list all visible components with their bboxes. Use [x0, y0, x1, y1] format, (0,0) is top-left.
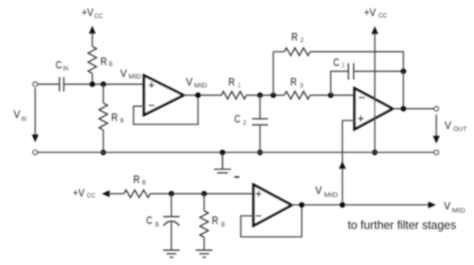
U2 - sign	[359, 97, 365, 99]
U3 feedback wire	[241, 205, 302, 237]
label VMID (U1 + input)	[120, 68, 141, 81]
wire R2 to output node	[310, 52, 403, 72]
label VOUT	[445, 120, 467, 133]
+VCC up arrowhead top-left	[89, 26, 96, 34]
capacitor C2	[252, 95, 268, 152]
label C2	[234, 114, 246, 127]
label RB (bias to ground)	[212, 215, 225, 229]
svg-text:R: R	[290, 77, 297, 89]
U1 + sign	[149, 82, 155, 88]
svg-text:2: 2	[243, 120, 247, 127]
wire +VCC supply line (crosses through U2)	[374, 33, 376, 152]
svg-text:+V: +V	[364, 7, 376, 19]
wire U2 + input from VMID	[342, 121, 355, 205]
ground (main rail)	[214, 152, 231, 173]
capacitor C1 branch left wire	[331, 71, 349, 95]
ground (under RB5)	[196, 250, 213, 257]
junction R2/C1	[401, 69, 407, 75]
U3 + sign	[256, 191, 262, 197]
wire RB1 to top rail	[91, 73, 93, 84]
wire riser to R2	[273, 51, 284, 53]
junction R2 node	[271, 92, 277, 98]
label VIN	[14, 109, 27, 123]
label R3	[290, 77, 303, 90]
minus polarity mark	[234, 176, 239, 178]
capacitor C1	[348, 63, 353, 79]
svg-text:C: C	[333, 57, 339, 69]
VMID right arrowhead	[428, 202, 436, 209]
svg-text:C: C	[146, 215, 152, 227]
+VCC up arrowhead top-right	[371, 26, 378, 34]
svg-text:R: R	[133, 174, 140, 186]
node +VCC label bottom-left	[73, 187, 96, 199]
capacitor CB (polarized)	[163, 194, 179, 250]
U3 output wire (VMID line)	[292, 204, 429, 206]
svg-text:V: V	[186, 77, 193, 89]
wire R1 to R3	[246, 94, 284, 96]
svg-text:R: R	[100, 56, 107, 68]
node +VCC label top-left	[82, 7, 103, 20]
input terminal (top)	[33, 82, 37, 86]
ground (under CB)	[163, 250, 180, 257]
svg-text:2: 2	[300, 37, 304, 44]
op-amp U3 (VMID buffer)	[254, 185, 292, 226]
wire RB5 riser	[203, 194, 205, 211]
capacitor CIN	[60, 77, 64, 91]
svg-text:C: C	[56, 60, 62, 72]
label VMID (to further stages)	[444, 200, 466, 214]
junction RB2/rail	[101, 81, 107, 87]
U1 - sign	[149, 104, 155, 106]
wire down to U2 output	[402, 71, 404, 108]
svg-text:CC: CC	[94, 13, 103, 20]
svg-text:to further filter stages: to further filter stages	[348, 218, 456, 232]
wire U2 output	[393, 108, 435, 110]
op-amp U1 (input buffer)	[144, 76, 184, 115]
svg-text:IN: IN	[21, 116, 27, 123]
label R2	[291, 31, 304, 44]
svg-text:IN: IN	[63, 66, 69, 73]
svg-text:CC: CC	[87, 193, 96, 200]
svg-text:3: 3	[300, 83, 304, 90]
svg-text:B: B	[109, 61, 113, 68]
junction ground tap	[220, 150, 226, 156]
svg-text:R: R	[212, 215, 219, 227]
svg-text:V: V	[120, 68, 127, 80]
label RB (pull-up)	[100, 56, 112, 68]
svg-text:B: B	[155, 222, 159, 229]
svg-text:1: 1	[238, 83, 241, 90]
resistor RB (pull-up, top-left)	[88, 46, 96, 73]
svg-text:R: R	[291, 31, 298, 43]
wire arrow to RB4	[109, 193, 124, 195]
label VMID (U3 output)	[315, 185, 338, 199]
U1 feedback wire (unity gain)	[134, 95, 199, 124]
label RB (to ground)	[111, 112, 124, 125]
wire CIN to op-amp U1 + input	[64, 83, 144, 85]
resistor RB (bias to ground)	[200, 211, 208, 237]
wire R2 branch riser	[272, 52, 274, 95]
junction C2 node	[257, 92, 263, 98]
wire RB2 to bottom rail	[102, 130, 104, 152]
U1 output wire	[184, 94, 222, 96]
svg-text:B: B	[120, 118, 124, 125]
svg-text:V: V	[315, 185, 322, 197]
svg-text:MID: MID	[324, 192, 338, 199]
svg-text:MID: MID	[194, 83, 207, 90]
wire RB5 to ground	[203, 237, 205, 250]
junction C2/bottom rail	[257, 150, 263, 156]
output terminal (top)	[434, 107, 438, 111]
resistor RB (bias feed)	[124, 190, 150, 198]
svg-text:MID: MID	[452, 208, 466, 215]
junction U1 output	[195, 92, 201, 98]
resistor R3	[284, 91, 310, 99]
junction +VCC line / bottom rail	[372, 150, 378, 156]
junction CB node	[169, 191, 175, 197]
svg-text:B: B	[221, 222, 225, 229]
wire input to CIN	[38, 83, 60, 85]
svg-text:OUT: OUT	[453, 126, 467, 133]
svg-text:V: V	[14, 109, 21, 121]
wire rail to RB2	[102, 84, 104, 103]
svg-text:MID: MID	[129, 74, 142, 81]
resistor R1	[221, 91, 246, 99]
svg-text:+V: +V	[82, 7, 94, 19]
junction VMID branch to U2	[340, 202, 346, 208]
input terminal (bottom)	[33, 150, 37, 154]
bottom rail wire	[38, 151, 435, 153]
svg-text:V: V	[445, 120, 452, 132]
resistor R2	[284, 48, 310, 56]
output terminal (bottom)	[434, 150, 438, 154]
svg-text:+V: +V	[73, 187, 85, 199]
node +VCC label top-right	[364, 7, 387, 20]
op-amp U2	[355, 88, 393, 129]
label VMID (U1 output)	[186, 77, 208, 90]
wire C1 to output node	[354, 70, 404, 72]
VMID feed up arrowhead	[339, 161, 346, 169]
+VCC left arrowhead	[102, 190, 110, 197]
U2 + sign	[358, 116, 364, 122]
svg-text:B: B	[142, 180, 146, 187]
junction RB1/rail	[90, 81, 96, 87]
junction RB5 node	[201, 191, 207, 197]
junction U2 output	[401, 106, 407, 112]
svg-text:C: C	[234, 114, 240, 126]
junction U2 - input node	[328, 92, 334, 98]
wire +VCC to RB1	[91, 33, 93, 46]
label RB (bias feed)	[133, 174, 146, 187]
junction U3 output	[299, 202, 305, 208]
svg-text:R: R	[228, 76, 235, 88]
label R1	[228, 76, 240, 89]
svg-text:1: 1	[342, 62, 345, 69]
wire R3 to U2 - input	[310, 94, 355, 96]
resistor RB (to ground)	[99, 103, 107, 130]
label C1	[333, 57, 344, 69]
label CB	[146, 215, 159, 229]
svg-text:V: V	[444, 200, 451, 212]
junction RB2/bottom rail	[101, 150, 107, 156]
svg-text:R: R	[111, 112, 118, 124]
wire RB4 to U3 + input	[150, 193, 254, 195]
VOUT direction arrow	[433, 115, 440, 144]
label CIN	[56, 60, 69, 73]
svg-text:CC: CC	[379, 13, 388, 20]
U3 - sign	[256, 215, 262, 217]
VIN direction arrow	[32, 88, 39, 142]
